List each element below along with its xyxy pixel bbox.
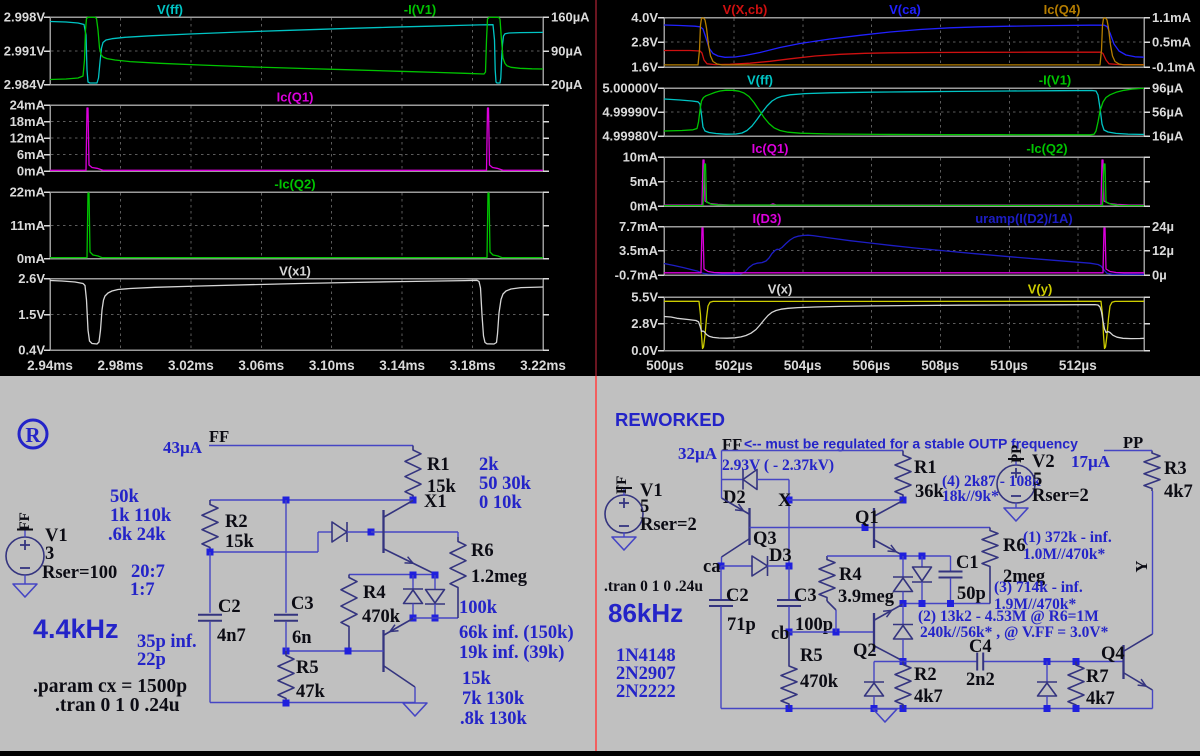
svg-text:<-- must be regulated for a st: <-- must be regulated for a stable OUTP … [744,436,1078,452]
junction [1044,658,1051,665]
svg-text:18mA: 18mA [10,114,46,129]
svg-text:19k inf. (39k): 19k inf. (39k) [459,643,564,663]
annotation (2) 13k2 [918,608,1109,641]
junction [283,497,290,504]
wire D2 anode to X [757,480,789,567]
svg-text:R: R [25,423,41,447]
junction [432,615,439,622]
svg-text:R1: R1 [914,458,937,478]
wire X to R1 bottom [789,499,903,501]
svg-text:50p: 50p [957,584,986,604]
svg-text:.6k 24k: .6k 24k [108,525,166,545]
svg-text:FF: FF [17,512,33,530]
resistor R3 [1144,451,1193,503]
svg-text:0.0V: 0.0V [631,343,658,358]
svg-text:R4: R4 [363,583,386,603]
svg-text:2n2: 2n2 [966,670,995,690]
annotation (4) 2k87 [942,473,1041,505]
node cb [771,624,793,644]
svg-text:C2: C2 [726,586,749,606]
svg-text:4.4kHz: 4.4kHz [33,614,119,644]
transistor Q4 (NPN) [1101,634,1153,690]
wire C4 to Q4 base [984,661,1124,663]
svg-text:2.98ms: 2.98ms [98,358,144,373]
svg-text:47k: 47k [296,682,326,702]
wire FF down to D2 [722,451,744,480]
wire lower base rail [286,650,384,652]
svg-text:R5: R5 [296,658,319,678]
svg-text:V(ff): V(ff) [747,73,773,88]
svg-text:Rser=2: Rser=2 [640,515,697,535]
svg-text:50 30k: 50 30k [479,474,532,494]
svg-text:510µs: 510µs [990,358,1028,373]
svg-text:3.9meg: 3.9meg [838,587,895,607]
wire base rail Q3-Q1-R6 [750,527,991,529]
diode D1 [332,522,347,542]
wire collector rail to C4 [874,661,977,663]
diode D3 right [752,546,792,576]
wire ca to D3 [721,565,752,567]
svg-text:.8k 130k: .8k 130k [460,709,528,729]
node ca [703,557,725,577]
junction base rail [862,524,869,531]
svg-text:C1: C1 [956,553,979,573]
svg-text:V2: V2 [1032,452,1055,472]
diode D2 [723,470,757,509]
svg-text:3.02ms: 3.02ms [168,358,214,373]
diode DC up middle [893,604,913,662]
svg-text:-I(V1): -I(V1) [404,2,437,17]
svg-text:-0.1mA: -0.1mA [1152,60,1196,75]
svg-text:R3: R3 [1164,459,1187,479]
svg-text:22p: 22p [137,650,166,670]
resistor R1 [405,446,457,501]
capacitor C2 right [709,566,756,709]
svg-text:1.1mA: 1.1mA [1152,10,1192,25]
resistor R1 right [895,451,945,503]
svg-text:36k: 36k [915,482,945,502]
svg-text:56µA: 56µA [1152,105,1184,120]
wire ground rail [210,702,415,704]
svg-text:3.18ms: 3.18ms [450,358,496,373]
svg-text:V(X,cb): V(X,cb) [723,2,768,17]
svg-text:2k: 2k [479,455,499,475]
svg-text:1:7: 1:7 [130,580,155,600]
svg-text:I(D3): I(D3) [753,211,782,226]
svg-text:7k 130k: 7k 130k [462,689,525,709]
svg-text:4.0V: 4.0V [631,10,658,25]
svg-text:R7: R7 [1086,667,1109,687]
resistor R2 right [895,662,943,709]
svg-text:10mA: 10mA [623,150,659,165]
transistor Q2 (NPN) [853,604,903,661]
svg-text:0mA: 0mA [17,251,46,266]
voltage source V1 right [605,476,697,535]
svg-text:15k: 15k [462,669,492,689]
resistor R6 right [982,528,1046,604]
ground V2 [1004,508,1028,521]
svg-text:160µA: 160µA [551,10,590,25]
junction [410,572,417,579]
svg-text:0mA: 0mA [630,199,659,214]
wire upper mid rail [827,555,951,557]
svg-text:PP: PP [1123,433,1143,452]
svg-text:R6: R6 [471,541,494,561]
node X1 [410,492,447,512]
capacitor C3 right [777,566,833,635]
svg-text:7.7mA: 7.7mA [619,219,659,234]
junction mid rail [919,553,926,560]
svg-text:4n7: 4n7 [217,626,246,646]
svg-text:V(ff): V(ff) [157,2,183,17]
wire base rail [210,499,413,501]
ground V1 [13,584,37,597]
transistor Q lower (PNP) [384,619,416,688]
svg-text:2.93V ( - 2.37kV): 2.93V ( - 2.37kV) [722,457,834,474]
svg-text:3.22ms: 3.22ms [520,358,566,373]
svg-text:100k: 100k [459,598,498,618]
svg-text:4k7: 4k7 [1086,689,1115,709]
svg-text:X1: X1 [424,492,447,512]
diode D3 down (right of pair) [425,575,445,618]
transistor Q3 (PNP) [722,498,777,557]
svg-text:R5: R5 [800,646,823,666]
svg-text:512µs: 512µs [1059,358,1097,373]
wire emitter rail [349,574,435,576]
ground [403,703,427,716]
svg-text:90µA: 90µA [551,44,583,59]
junction [1073,705,1080,712]
wire diode cathode to base node [347,531,371,533]
svg-text:43µA: 43µA [163,438,203,457]
svg-text:2.6V: 2.6V [18,271,45,286]
svg-text:4.99990V: 4.99990V [602,105,658,120]
capacitor C3 [274,500,314,651]
diode DE up [1037,662,1057,709]
svg-text:1.6V: 1.6V [631,60,658,75]
capacitor C1 [939,553,986,604]
svg-text:24mA: 24mA [10,98,46,113]
svg-text:Q1: Q1 [855,508,879,528]
junction [947,600,954,607]
svg-text:R1: R1 [427,455,450,475]
svg-text:C4: C4 [969,637,992,657]
junction [871,705,878,712]
svg-text:4k7: 4k7 [914,687,943,707]
svg-text:.tran 0 1 0 .24u: .tran 0 1 0 .24u [604,578,703,595]
svg-text:0µ: 0µ [1152,268,1167,283]
svg-text:12mA: 12mA [10,131,46,146]
svg-text:22mA: 22mA [10,185,46,200]
svg-text:16µA: 16µA [1152,129,1184,144]
registered trademark logo [19,420,47,448]
svg-text:Y: Y [1132,561,1151,573]
svg-text:470k: 470k [800,672,839,692]
svg-text:Ic(Q1): Ic(Q1) [277,90,314,105]
resistor R7 [1068,662,1115,710]
wire Y net [1152,491,1154,634]
diode DA up [893,556,913,604]
svg-text:C2: C2 [218,597,241,617]
ground right rail [873,709,897,722]
svg-text:96µA: 96µA [1152,81,1184,96]
svg-text:R2: R2 [914,665,937,685]
svg-text:15k: 15k [225,532,255,552]
junction [410,615,417,622]
wire to diode anode [318,532,332,552]
svg-text:cb: cb [771,624,790,644]
junction [1044,705,1051,712]
svg-text:240k//56k* , @ V.FF = 3.0V*: 240k//56k* , @ V.FF = 3.0V* [920,624,1109,641]
capacitor C4 [966,637,995,690]
annotation (3) 714k [994,579,1083,613]
svg-text:(1) 372k - inf.: (1) 372k - inf. [1023,529,1112,546]
svg-text:3.10ms: 3.10ms [309,358,355,373]
svg-text:0.4V: 0.4V [18,343,45,358]
svg-text:17µA: 17µA [1071,452,1111,471]
svg-text:-Ic(Q2): -Ic(Q2) [1026,141,1067,156]
svg-text:86kHz: 86kHz [608,598,683,628]
svg-text:Rser=100: Rser=100 [42,563,117,583]
svg-text:R2: R2 [225,512,248,532]
svg-text:2.998V: 2.998V [4,10,46,25]
svg-text:5.5V: 5.5V [631,290,658,305]
wire PP rail [1104,450,1152,452]
svg-text:1.5V: 1.5V [18,307,45,322]
wire diode bottom rail to R6 bottom [413,617,458,619]
junction D3 cathode [786,563,793,570]
junction [919,600,926,607]
svg-text:ca: ca [703,557,720,577]
svg-text:.param cx = 1500p: .param cx = 1500p [33,676,187,697]
svg-text:FF: FF [614,476,630,494]
svg-text:500µs: 500µs [646,358,684,373]
wire lower mid rail [903,603,990,605]
svg-text:C3: C3 [794,586,817,606]
svg-text:5.00000V: 5.00000V [602,81,658,96]
svg-text:1.2meg: 1.2meg [471,567,528,587]
annotation (1) 372k [1023,529,1112,563]
svg-text:20:7: 20:7 [131,562,165,582]
svg-text:Ic(Q4): Ic(Q4) [1044,2,1081,17]
wire D3 to C3 top [768,565,790,567]
svg-text:V(ca): V(ca) [889,2,921,17]
junction [900,705,907,712]
svg-text:18k//9k*: 18k//9k* [942,488,999,505]
wire R2 bottom [210,551,318,553]
junction Q2 collector [900,658,907,665]
voltage source V1 [6,512,117,583]
svg-text:508µs: 508µs [921,358,959,373]
svg-text:X: X [778,491,792,511]
annotation ratios [130,562,165,600]
svg-text:PP: PP [1009,445,1025,463]
svg-text:6mA: 6mA [17,147,46,162]
voltage source V2 [997,445,1089,506]
svg-text:V(x1): V(x1) [279,264,311,279]
svg-text:(3) 714k - inf.: (3) 714k - inf. [994,579,1083,596]
diode D2 up (left of pair) [403,575,423,618]
resistor R5 right [781,632,839,709]
svg-text:3.5mA: 3.5mA [619,243,659,258]
junction R4 bottom [833,629,840,636]
svg-text:20µA: 20µA [551,77,583,92]
wire emitter to ground [414,687,416,703]
diode DD up [864,662,884,709]
svg-text:50k: 50k [110,487,140,507]
svg-text:(2) 13k2 - 4.53M @ R6=1M: (2) 13k2 - 4.53M @ R6=1M [918,608,1099,625]
wire Q3 collector to ca [721,557,723,566]
svg-text:2.8V: 2.8V [631,316,658,331]
svg-text:71p: 71p [727,615,756,635]
svg-text:5: 5 [640,497,649,517]
node X [778,491,793,511]
svg-text:11mA: 11mA [10,218,45,233]
svg-text:1N4148: 1N4148 [616,646,676,666]
resistor R2 [202,500,255,552]
svg-text:Q2: Q2 [853,641,877,661]
wire FF rail right [722,450,904,452]
resistor R5 [278,651,326,703]
svg-text:FF: FF [209,427,229,446]
svg-text:1.0M//470k*: 1.0M//470k* [1023,546,1105,563]
junction [432,572,439,579]
svg-text:4.99980V: 4.99980V [602,129,658,144]
junction [283,648,290,655]
transistor Q1 (NPN) [855,501,903,556]
svg-text:2N2222: 2N2222 [616,682,676,702]
ground V1 right [612,537,636,550]
wire bottom rail right [721,708,1153,710]
svg-text:-Ic(Q2): -Ic(Q2) [274,177,315,192]
svg-text:2N2907: 2N2907 [616,664,676,684]
junction [1073,658,1080,665]
svg-text:1k 110k: 1k 110k [110,506,172,526]
annotation 50k block [108,487,172,545]
svg-text:0.5mA: 0.5mA [1152,35,1192,50]
svg-text:66k inf. (150k): 66k inf. (150k) [459,623,574,643]
svg-text:12µ: 12µ [1152,243,1174,258]
annotation 15k block [460,669,528,729]
svg-text:V(x): V(x) [768,282,793,297]
wire base node to R6 top [371,531,458,533]
junction [207,549,214,556]
wire V1r ground stub [623,532,625,537]
wire cb to Q2 base [789,631,874,633]
svg-text:2.94ms: 2.94ms [27,358,73,373]
divider red line [595,0,597,376]
svg-text:6n: 6n [292,628,312,648]
svg-text:502µs: 502µs [715,358,753,373]
capacitor C2 [198,552,246,703]
svg-text:3.14ms: 3.14ms [379,358,425,373]
svg-text:506µs: 506µs [852,358,890,373]
svg-text:2.8V: 2.8V [631,35,658,50]
diode DB down [912,556,932,604]
svg-text:uramp(I(D2)/1A): uramp(I(D2)/1A) [975,211,1073,226]
svg-text:504µs: 504µs [784,358,822,373]
svg-text:470k: 470k [362,607,401,627]
wire V1 to ground [24,575,26,584]
svg-text:V(y): V(y) [1028,282,1053,297]
annotation 2k / 50 30k / 0 10k [479,455,532,513]
svg-text:32µA: 32µA [678,444,718,463]
annotation part numbers [616,646,676,702]
annotation 100k block [459,598,574,663]
svg-text:.tran 0 1 0 .24u: .tran 0 1 0 .24u [55,695,180,716]
junction base node [368,529,375,536]
resistor R4 right [819,556,895,632]
transistor Q upper (NPN) [384,501,435,574]
junction R1 bottom [900,497,907,504]
svg-text:4k7: 4k7 [1164,482,1193,502]
wire FF top rail [209,445,413,447]
svg-text:REWORKED: REWORKED [615,409,725,430]
wire D2/Q3 emitter stub [721,480,723,499]
svg-text:0mA: 0mA [17,164,46,179]
svg-text:3.06ms: 3.06ms [238,358,284,373]
svg-text:0 10k: 0 10k [479,493,522,513]
svg-text:2.984V: 2.984V [4,77,46,92]
wire V2 ground stub [1015,503,1017,508]
svg-text:Ic(Q1): Ic(Q1) [752,141,789,156]
svg-text:35p inf.: 35p inf. [137,632,197,652]
wire Q4 emitter to rail [1152,690,1154,709]
svg-text:Rser=2: Rser=2 [1032,486,1089,506]
junction [900,600,907,607]
svg-text:3: 3 [45,544,54,564]
svg-text:5mA: 5mA [630,174,659,189]
svg-text:-I(V1): -I(V1) [1039,73,1072,88]
annotation 35p inf / 22p [137,632,197,670]
svg-text:Q4: Q4 [1101,644,1125,664]
junction [786,705,793,712]
junction [283,700,290,707]
resistor R4 [341,575,401,652]
resistor R6 [450,532,528,618]
junction [345,648,352,655]
svg-text:C3: C3 [291,594,314,614]
svg-text:-0.7mA: -0.7mA [615,268,659,283]
svg-text:R4: R4 [839,565,862,585]
svg-text:24µ: 24µ [1152,219,1174,234]
junction Q1 emitter [900,553,907,560]
svg-text:V1: V1 [45,526,68,546]
svg-text:2.991V: 2.991V [4,44,46,59]
